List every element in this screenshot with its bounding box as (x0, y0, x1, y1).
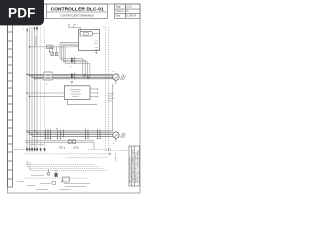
svg-text:-a: -a (113, 143, 116, 145)
svg-text:DRAWING NO 03-01-02-13 REV 2.0: DRAWING NO 03-01-02-13 REV 2.0 (135, 152, 138, 183)
svg-text:2: 2 (46, 84, 48, 86)
svg-text:k: k (85, 128, 86, 130)
svg-text:Page: Page (116, 7, 122, 9)
svg-text:CONTROLLER DLC-01 SHEET 1 OF 4: CONTROLLER DLC-01 SHEET 1 OF 4 (132, 150, 134, 183)
svg-text:3x400V+N: 3x400V+N (36, 36, 38, 46)
svg-text:q1: q1 (56, 128, 59, 130)
svg-text:a: a (23, 29, 25, 31)
svg-text:CONTROLLER DLC-01: CONTROLLER DLC-01 (51, 7, 104, 13)
svg-text:Date: Date (116, 15, 122, 18)
svg-text:: 01.10R.04: : 01.10R.04 (124, 16, 137, 18)
svg-text:Version: Version (116, 10, 124, 13)
svg-text:: 8.2.01: : 8.2.01 (124, 7, 132, 9)
svg-text:F: F (71, 67, 73, 69)
svg-text:- sensor x2: - sensor x2 (115, 153, 117, 162)
svg-text:PDF: PDF (8, 6, 36, 21)
svg-text:: 2.0: : 2.0 (124, 11, 129, 13)
svg-text:DATE 01.10.04 SCALE NTS DRW: DATE 01.10.04 SCALE NTS DRW (129, 157, 132, 183)
svg-text:a i: a i (112, 71, 115, 73)
svg-text:-a: -a (113, 85, 116, 87)
svg-text:CONTROLLER'S DRAWINGS: CONTROLLER'S DRAWINGS (60, 14, 94, 17)
